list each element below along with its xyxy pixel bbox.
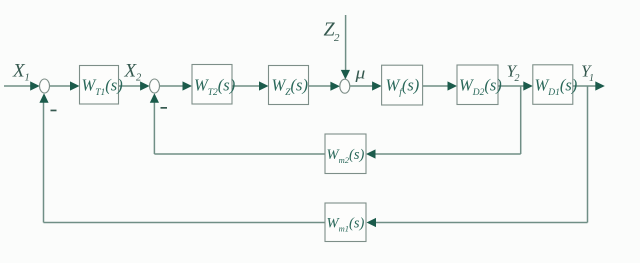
arrowhead into Wf <box>372 81 382 90</box>
block WT2 <box>192 65 232 105</box>
wire feedback m1 right segment <box>376 222 588 224</box>
svg-text:2: 2 <box>136 73 142 84</box>
arrowhead up into sum2 <box>150 93 159 103</box>
wire Wf to block WD2 <box>423 85 450 87</box>
block WZ <box>269 66 309 105</box>
wire sum1 feedback vertical riser <box>43 101 45 223</box>
wire Y2 node vertical drop <box>520 86 522 154</box>
wire WD2 to block WD1 <box>498 85 526 87</box>
wire feedback m2 left segment <box>154 153 325 155</box>
arrowhead output Y1 <box>595 81 605 90</box>
arrowhead into sum3 <box>330 82 340 91</box>
summing junction 3 <box>340 79 350 93</box>
block WD1 <box>533 65 573 105</box>
svg-text:1: 1 <box>25 73 30 84</box>
wire WZ to sum junction 3 <box>309 85 333 87</box>
wire sum1 to block WT1 <box>50 85 73 87</box>
minus sign at sum1 <box>51 110 57 112</box>
wire Z2 vertical drop into sum3 <box>345 15 347 72</box>
arrowhead into WD2 <box>448 81 458 90</box>
arrowhead into WT1 <box>70 81 80 90</box>
block WT1 <box>80 66 119 105</box>
wire WD1 to output Y1 <box>573 85 597 87</box>
block Wm2 <box>325 134 366 174</box>
wire sum2 to block WT2 <box>160 85 185 87</box>
block Wm1 <box>325 203 366 242</box>
summing junction 1 <box>40 79 50 93</box>
arrowhead into sum1 <box>30 81 40 90</box>
wire Y1 node vertical drop <box>587 86 589 223</box>
arrowhead into sum2 <box>140 81 150 90</box>
svg-text:2: 2 <box>515 73 520 84</box>
wire feedback m1 left segment <box>44 222 326 224</box>
svg-text:2: 2 <box>334 32 340 44</box>
arrowhead left into Wm2 <box>366 149 376 158</box>
wire WT1 to sum junction 2 <box>119 85 143 87</box>
wire feedback m2 right segment <box>375 153 521 155</box>
arrowhead up into sum1 <box>39 93 48 103</box>
wire X1 input to sum junction 1 <box>4 85 32 87</box>
wire sum2 feedback vertical riser <box>153 101 155 154</box>
block Wf <box>382 65 423 105</box>
svg-text:μ: μ <box>354 64 365 83</box>
arrowhead into WZ <box>259 81 269 90</box>
arrowhead left into Wm1 <box>367 218 377 227</box>
arrowhead Z2 down into sum3 <box>341 70 350 80</box>
minus sign at sum2 <box>161 107 168 109</box>
wire sum3 to block Wf <box>350 85 374 87</box>
block WD2 <box>457 65 498 105</box>
wire WT2 to block WZ <box>232 85 261 87</box>
arrowhead into WD1 <box>523 81 533 90</box>
arrowhead into WT2 <box>183 81 193 90</box>
svg-text:1: 1 <box>589 73 594 84</box>
summing junction 2 <box>150 79 160 93</box>
